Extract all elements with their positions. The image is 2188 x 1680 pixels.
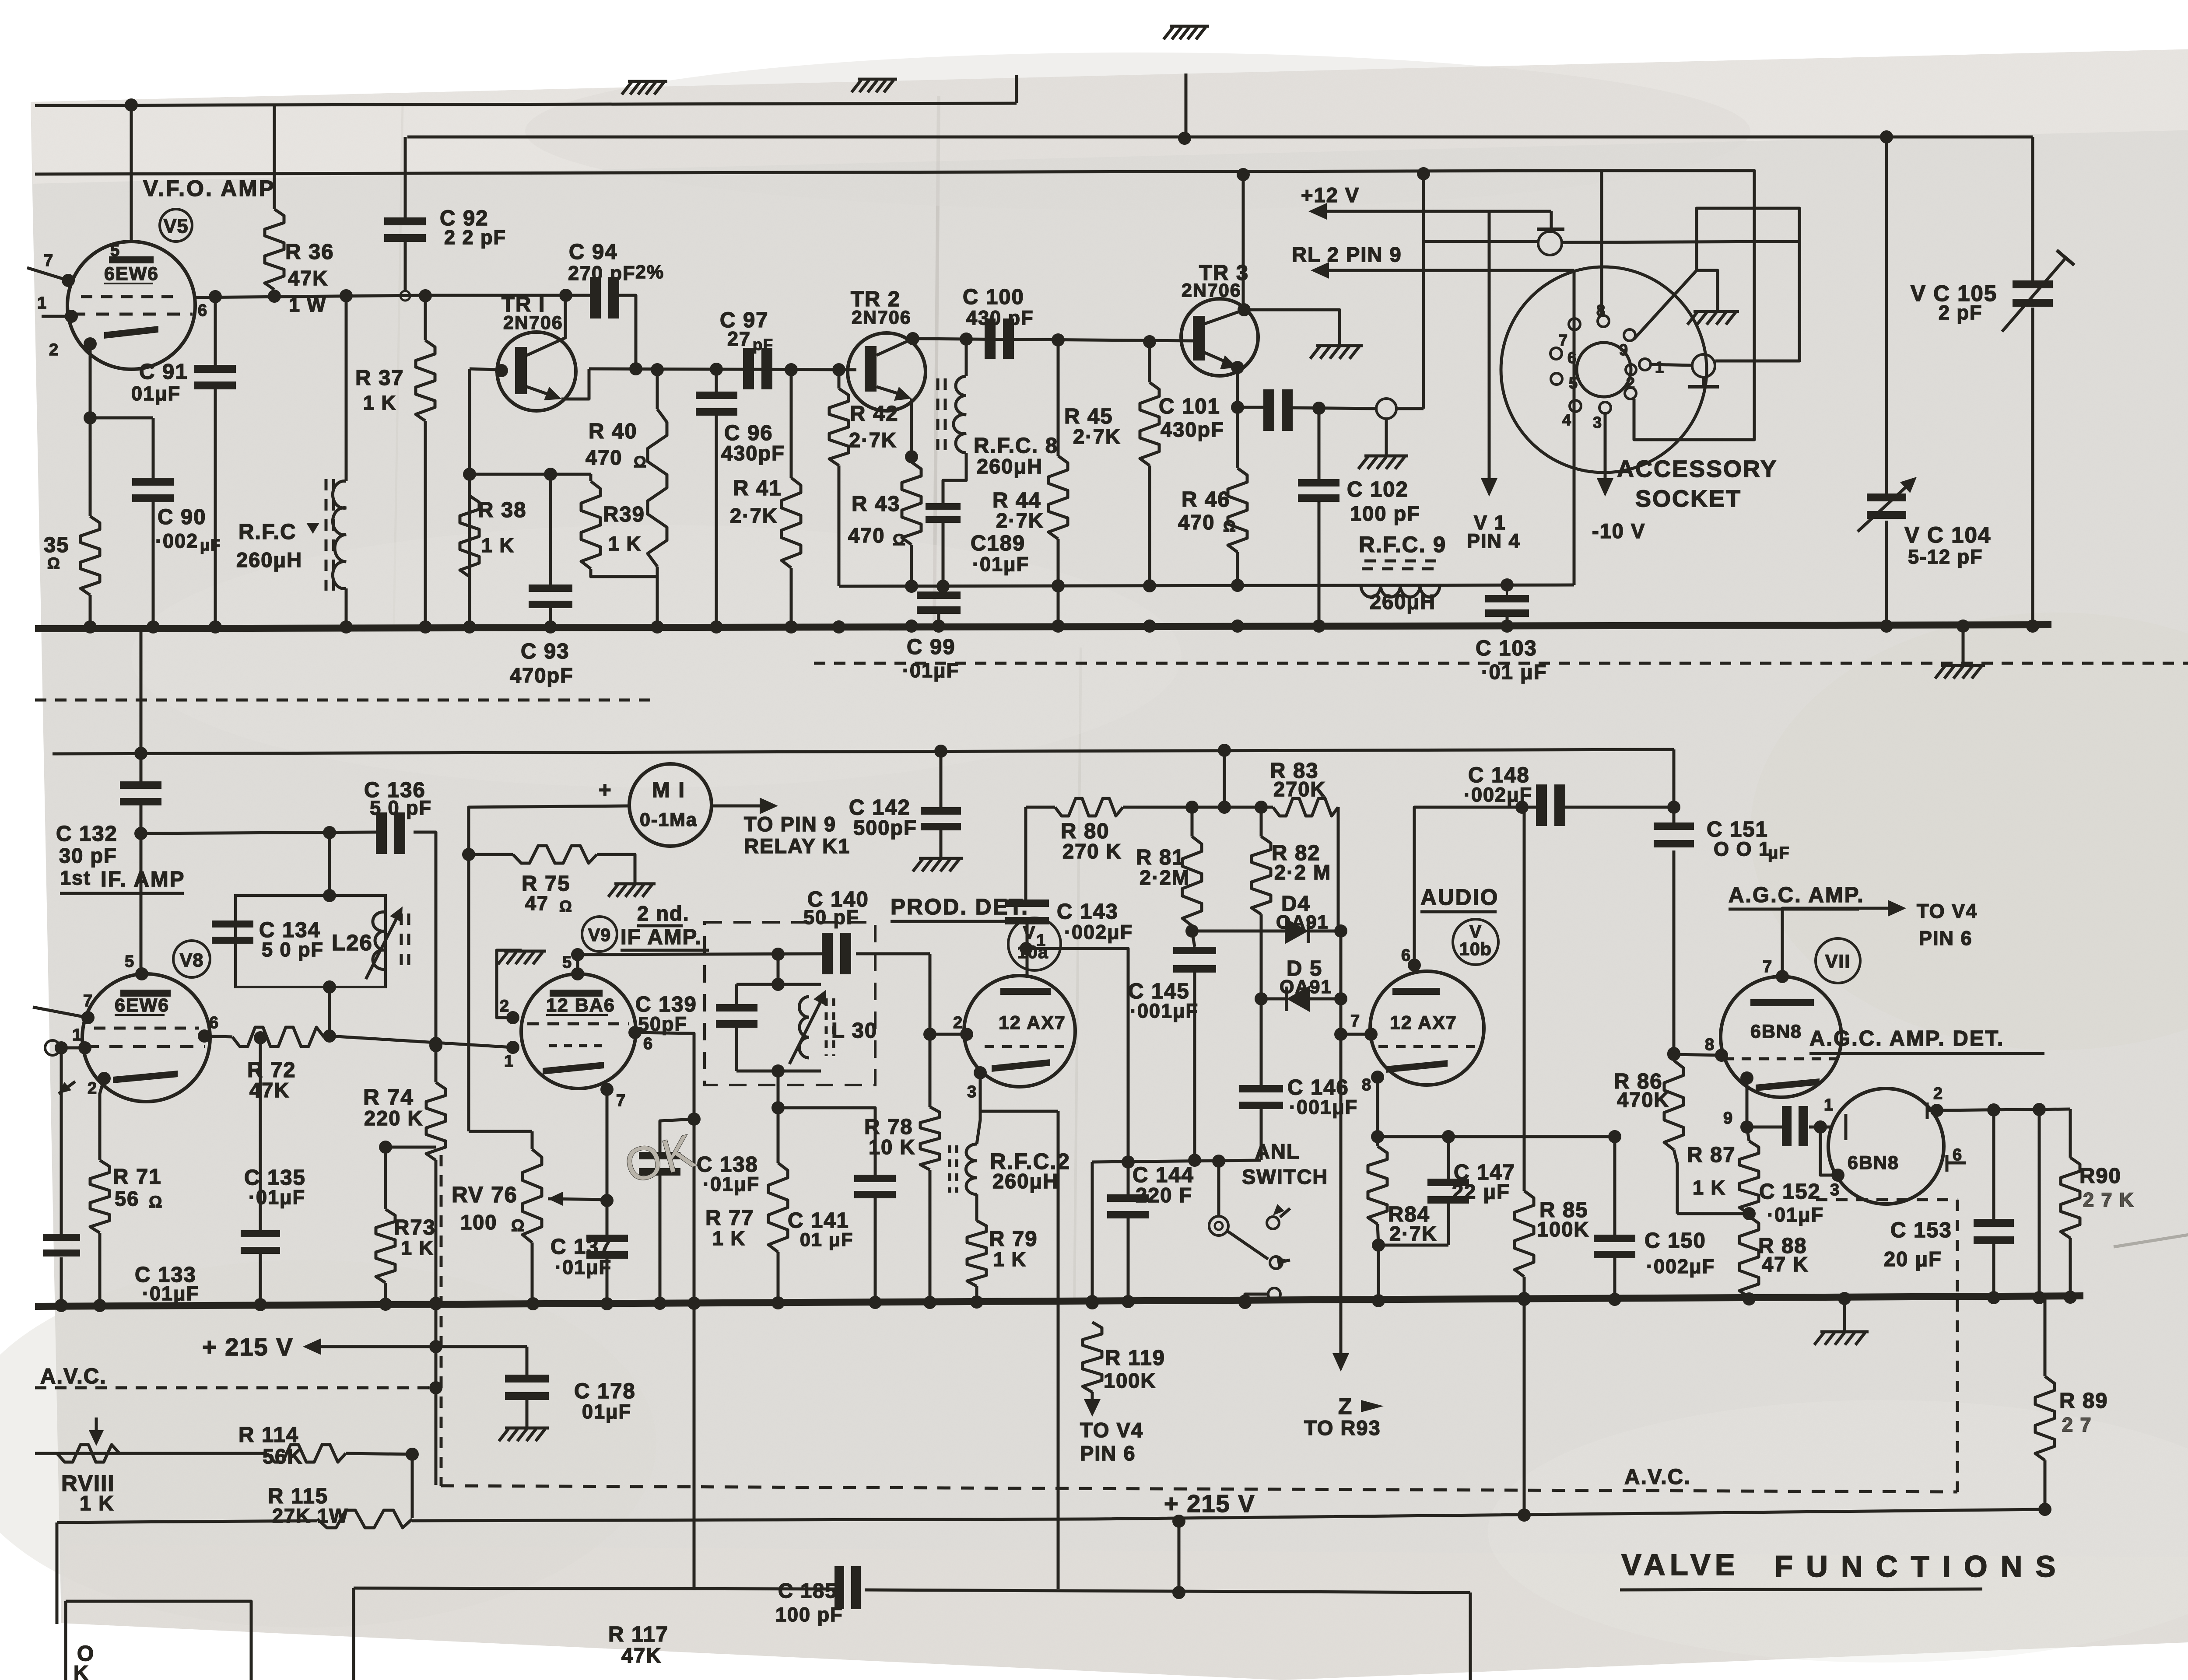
- svg-text:·002μF: ·002μF: [1646, 1255, 1715, 1277]
- svg-text:C 153: C 153: [1890, 1218, 1952, 1242]
- svg-text:5: 5: [1569, 374, 1578, 392]
- svg-text:6BN8: 6BN8: [1848, 1152, 1899, 1173]
- wire D5 line: [1261, 997, 1287, 1001]
- svg-text:1: 1: [1655, 358, 1665, 376]
- node pin6 col split: [687, 1113, 701, 1126]
- ground socket: [1694, 310, 1739, 313]
- wire C135 column: [259, 1038, 262, 1230]
- resistor R41: [782, 478, 801, 568]
- RFC9 core dashes: [1362, 567, 1439, 570]
- svg-text:L26: L26: [332, 930, 373, 955]
- svg-text:OA91: OA91: [1276, 912, 1329, 933]
- svg-text:430 pF: 430 pF: [966, 307, 1034, 329]
- wire rail to box: [1178, 1521, 1181, 1595]
- svg-text:AUDIO: AUDIO: [1420, 885, 1499, 910]
- capacitor C136: [376, 812, 387, 854]
- V9 cathode bar: [543, 1062, 604, 1074]
- wire tank top: [736, 983, 821, 986]
- svg-text:6: 6: [209, 1014, 219, 1032]
- svg-text:C 94: C 94: [569, 240, 618, 264]
- tube designator V10a circle: [1008, 918, 1061, 970]
- capacitor C189: [926, 503, 961, 510]
- svg-text:ACCESSORY: ACCESSORY: [1617, 456, 1778, 482]
- V11b grid stub pin1: [1844, 1114, 1848, 1140]
- resistor R35 (partial): [81, 516, 100, 595]
- node TR2 collector: [906, 332, 919, 345]
- resistor R90: [2061, 1158, 2080, 1238]
- transistor TR3: [1181, 299, 1258, 376]
- wire VC104 column: [1885, 137, 1888, 493]
- node rail x2694: [1172, 1515, 1185, 1528]
- node bus x1637: [710, 620, 723, 633]
- svg-text:10b: 10b: [1459, 939, 1492, 959]
- svg-text:2 7: 2 7: [2062, 1414, 2092, 1436]
- wire V5 pin6 line: [195, 295, 425, 297]
- node C151 bottom: [1667, 1047, 1680, 1060]
- svg-text:01μF: 01μF: [582, 1400, 631, 1423]
- svg-text:Ω: Ω: [511, 1217, 525, 1235]
- svg-text:12 AX7: 12 AX7: [999, 1012, 1066, 1033]
- svg-text:R 38: R 38: [478, 498, 527, 522]
- wire R73 link: [386, 1146, 436, 1149]
- wire C133 column: [60, 1048, 63, 1234]
- VC105 arrow: [2002, 257, 2066, 332]
- capacitor C143: [1005, 899, 1049, 907]
- node bus2 x1778: [771, 1296, 785, 1309]
- svg-text:pF: pF: [753, 336, 774, 353]
- node bus x1502: [651, 620, 664, 633]
- wire R80 to R83: [1123, 806, 1273, 809]
- svg-text:C 137: C 137: [551, 1235, 612, 1259]
- capacitor C101: [1263, 389, 1274, 431]
- tube designator V8: [173, 941, 210, 977]
- wire +12V corner to jack: [1550, 211, 1553, 229]
- wire C138 lower: [659, 1176, 662, 1305]
- svg-text:6EW6: 6EW6: [104, 263, 159, 284]
- wire C153 column: [1992, 1110, 1995, 1219]
- svg-text:6EW6: 6EW6: [115, 995, 169, 1016]
- node bus x972: [419, 620, 432, 633]
- wire connector ground stem: [1385, 419, 1388, 455]
- svg-text:260μH: 260μH: [977, 455, 1043, 478]
- L26 arrow: [366, 911, 400, 979]
- RFC8 core dashes: [944, 378, 947, 455]
- svg-text:2 nd.: 2 nd.: [637, 902, 690, 925]
- svg-text:C 143: C 143: [1057, 900, 1119, 924]
- L26 core dashes: [400, 913, 403, 968]
- svg-text:220 F: 220 F: [1136, 1183, 1192, 1207]
- node bus2 x228: [93, 1299, 106, 1312]
- wire M1 output arrow: [712, 805, 767, 808]
- node box x2694: [1172, 1586, 1185, 1599]
- dashed AVC main: [441, 1486, 1957, 1492]
- node V10a pin1: [1020, 942, 1033, 955]
- resistor RV76: [522, 1149, 542, 1242]
- svg-text:·01μF: ·01μF: [1767, 1204, 1824, 1226]
- svg-text:1 K: 1 K: [481, 534, 515, 556]
- V10b grid dashes: [1378, 1045, 1475, 1048]
- resistor R46: [1228, 468, 1247, 552]
- svg-text:+ 215 V: + 215 V: [202, 1333, 294, 1361]
- capacitor VC104: [1867, 493, 1906, 501]
- svg-text:1 W: 1 W: [289, 294, 326, 316]
- ground bus stem: [1962, 626, 1965, 665]
- connector circle: [1376, 399, 1396, 419]
- svg-text:C 132: C 132: [56, 822, 118, 846]
- node L3 junction x2841: [1237, 168, 1250, 181]
- capacitor C185: [835, 1566, 844, 1609]
- ground bus2 hatch: [1820, 1330, 1869, 1333]
- wire TR1 base line: [470, 369, 497, 370]
- wire C132 to V8 pin5: [140, 805, 143, 974]
- svg-text:R 119: R 119: [1105, 1346, 1165, 1370]
- capacitor C150: [1594, 1235, 1635, 1242]
- svg-text:V.F.O. AMP: V.F.O. AMP: [143, 176, 276, 201]
- resistor R42: [829, 388, 849, 465]
- node x2882: [1255, 801, 1268, 814]
- resistor R85: [1515, 1191, 1534, 1277]
- svg-text:SOCKET: SOCKET: [1635, 486, 1742, 512]
- ground C178: [505, 1427, 549, 1430]
- V10b cathode bar: [1386, 1060, 1448, 1073]
- svg-text:100 pF: 100 pF: [1350, 502, 1420, 525]
- node C144 top: [1122, 1155, 1135, 1169]
- svg-text:Ω: Ω: [559, 897, 573, 915]
- V11 cathode bar: [1756, 1078, 1820, 1091]
- wire tank bottom riser: [777, 1071, 780, 1108]
- svg-text:430pF: 430pF: [1161, 418, 1224, 441]
- resistor R40: [648, 409, 667, 567]
- wire x3253 riser: [1422, 174, 1425, 409]
- svg-text:50 pF: 50 pF: [803, 906, 859, 928]
- node bus2 x1508: [653, 1297, 666, 1310]
- wire V8 pin1 stub: [61, 1046, 85, 1050]
- capacitor VC105: [2013, 280, 2053, 288]
- svg-text:R 46: R 46: [1182, 488, 1231, 511]
- resistor R86: [1664, 1060, 1683, 1150]
- node bus2 x4660: [2033, 1291, 2046, 1304]
- node bus2 x2232: [970, 1295, 983, 1309]
- node bus2 x1387: [600, 1297, 614, 1310]
- node bus2 x1586: [687, 1297, 701, 1310]
- capacitor C134: [212, 920, 253, 927]
- svg-text:L 30: L 30: [831, 1019, 877, 1043]
- svg-text:C 103: C 103: [1476, 637, 1537, 660]
- node RFC8 top: [960, 332, 973, 346]
- diode D5: [1287, 986, 1310, 1012]
- wire C132 column upper: [140, 626, 143, 781]
- node bus x2145: [932, 619, 945, 633]
- node bus2 x3483: [1518, 1293, 1531, 1306]
- svg-text:R90: R90: [2079, 1164, 2121, 1188]
- switch contact 1: [1267, 1217, 1279, 1229]
- svg-text:1: 1: [1824, 1096, 1834, 1114]
- wire C91 column: [214, 296, 217, 365]
- ground stub top edge 3: [1170, 25, 1209, 28]
- svg-text:7: 7: [44, 252, 54, 270]
- node bus2 x2496: [1086, 1295, 1099, 1308]
- svg-text:·001μF: ·001μF: [1289, 1096, 1358, 1118]
- node bus x3444: [1501, 619, 1514, 633]
- node out844 x1453: [629, 362, 642, 375]
- svg-text:A.V.C.: A.V.C.: [40, 1365, 107, 1388]
- resistor R72 horizontal: [232, 1027, 324, 1046]
- V11b grid stub pin2: [1926, 1102, 1929, 1119]
- wire V5 pin7 stub: [27, 268, 68, 280]
- node bus2 x4731: [2064, 1291, 2077, 1304]
- wire y2655 link: [1092, 1160, 1261, 1162]
- svg-text:R.F.C. 8: R.F.C. 8: [974, 434, 1058, 458]
- svg-text:6BN8: 6BN8: [1750, 1021, 1802, 1042]
- wire +215V rail: [412, 1509, 2045, 1521]
- wire C146 column: [1260, 999, 1263, 1085]
- svg-text:6: 6: [1401, 946, 1411, 965]
- wire tank bottom: [736, 1070, 821, 1073]
- svg-text:6: 6: [643, 1035, 653, 1053]
- tube designator V10a: [1019, 941, 1020, 942]
- V9 anode bar: [550, 990, 603, 997]
- svg-text:VII: VII: [1825, 951, 1851, 972]
- node bus2 x140: [55, 1299, 68, 1312]
- node bus x1258: [544, 620, 557, 633]
- node bus2 x2125: [923, 1296, 936, 1309]
- svg-text:R39: R39: [603, 503, 645, 526]
- svg-text:01 μF: 01 μF: [800, 1229, 853, 1250]
- wire RFC2 box top: [980, 1110, 1058, 1113]
- capacitor C141: [854, 1175, 896, 1182]
- wire x4660 column: [2038, 1109, 2041, 1297]
- svg-text:47: 47: [525, 892, 549, 914]
- connector circle pin1: [45, 1040, 60, 1055]
- node L26 top: [323, 889, 336, 902]
- capacitor C135: [241, 1230, 280, 1237]
- node bus x791: [340, 620, 353, 633]
- svg-text:220 K: 220 K: [364, 1106, 423, 1130]
- TR3 emitter lead: [1205, 353, 1232, 364]
- svg-text:5: 5: [125, 952, 135, 971]
- RVIII wiper arrow: [95, 1417, 98, 1440]
- wire pin7 arrow: [1782, 908, 1895, 976]
- svg-text:1 K: 1 K: [80, 1491, 114, 1515]
- svg-text:+: +: [599, 778, 612, 802]
- node L1a junction: [125, 98, 138, 112]
- svg-text:R 37: R 37: [355, 366, 404, 390]
- V5 grid dashes: [81, 295, 182, 298]
- resistor R115 horizontal: [317, 1510, 412, 1528]
- wire pin9 column: [1746, 1078, 1749, 1127]
- node x2798b: [1218, 801, 1231, 814]
- node pin8/R84: [1371, 1130, 1384, 1143]
- jack2 stem: [1702, 377, 1705, 387]
- svg-text:47K: 47K: [249, 1078, 290, 1102]
- svg-text:470K: 470K: [1617, 1088, 1669, 1111]
- node V11 pin7: [1776, 970, 1789, 983]
- tube V5 6EW6: [67, 241, 195, 369]
- svg-text:3: 3: [1593, 413, 1602, 431]
- capacitor C140: [822, 933, 833, 974]
- capacitor C92: [384, 217, 426, 225]
- svg-text:VALVE: VALVE: [1621, 1548, 1739, 1582]
- wire TR3 collector to ground: [1244, 310, 1339, 345]
- svg-text:100K: 100K: [1104, 1369, 1156, 1392]
- svg-text:TO PIN 9: TO PIN 9: [744, 812, 836, 836]
- svg-text:C 93: C 93: [521, 640, 570, 663]
- svg-text:·01μF: ·01μF: [249, 1186, 305, 1208]
- node pin6 junction: [209, 290, 222, 303]
- svg-text:A.V.C.: A.V.C.: [1624, 1465, 1691, 1489]
- node AVC x996: [429, 1381, 442, 1394]
- capacitor C100: [985, 318, 996, 359]
- node V10a pin3: [974, 1066, 987, 1079]
- node out844 x1808: [785, 363, 798, 376]
- wire pin6 line to C94: [425, 294, 590, 297]
- jack1 tee bar: [1537, 227, 1564, 231]
- capacitor C148: [1536, 784, 1547, 826]
- svg-text:·01μF: ·01μF: [972, 553, 1029, 575]
- node V11 pin9: [1740, 1071, 1753, 1085]
- wire C90 column upper: [152, 418, 155, 478]
- wire C150 column: [1613, 1137, 1616, 1235]
- capacitor C153: [1974, 1219, 2014, 1227]
- svg-text:2·7K: 2·7K: [996, 509, 1044, 532]
- wire V8 pin7 stub: [33, 1007, 88, 1018]
- svg-text:C 100: C 100: [963, 285, 1024, 309]
- svg-text:Ω: Ω: [1223, 517, 1237, 535]
- node R37 top: [419, 289, 432, 302]
- node C94 left junction: [559, 289, 572, 302]
- wire C143 riser: [1024, 807, 1027, 899]
- wire C101 to connector: [1292, 408, 1377, 409]
- node V9 pin7: [600, 1083, 614, 1096]
- svg-text:R 43: R 43: [852, 492, 901, 516]
- capacitor C103: [1485, 595, 1529, 602]
- resistor R38: [460, 496, 479, 577]
- svg-text:Ω: Ω: [893, 531, 906, 549]
- svg-text:22 μF: 22 μF: [1452, 1180, 1510, 1203]
- svg-text:μF: μF: [1768, 844, 1790, 862]
- node R45 top: [1143, 335, 1156, 348]
- wire pin3 to RFC2: [977, 1073, 980, 1144]
- svg-text:C189: C189: [971, 532, 1025, 555]
- svg-text:1: 1: [504, 1052, 514, 1071]
- wire C90 column lower: [152, 501, 155, 627]
- dashed AVC right top: [1816, 1198, 1957, 1201]
- node +215 x996: [429, 1340, 442, 1353]
- ground bus hatch: [1941, 664, 1985, 667]
- node base/R38 junction: [463, 468, 476, 481]
- node V10b pin6: [1408, 959, 1421, 972]
- wire lower ground bus: [35, 1296, 2083, 1306]
- inductor RFC 260uH: [345, 296, 348, 481]
- svg-text:260μH: 260μH: [992, 1169, 1059, 1193]
- wire vertical at x2710 from paper edge: [1185, 73, 1188, 139]
- wire R115 left: [57, 1521, 317, 1522]
- svg-text:·002μF: ·002μF: [1064, 921, 1133, 943]
- wire L3 corner down to socket pin8: [1600, 171, 1603, 316]
- wire C140 corner to pin2: [930, 954, 967, 1034]
- inductor RFC2: [966, 1144, 977, 1194]
- wire rail corner down: [1673, 749, 1676, 806]
- wire V9 pin5 riser: [576, 955, 579, 974]
- svg-text:2: 2: [1933, 1085, 1943, 1103]
- tube designator V5 circle: [160, 209, 192, 241]
- svg-text:6: 6: [198, 301, 208, 320]
- svg-text:R73: R73: [394, 1216, 436, 1239]
- svg-text:C 178: C 178: [574, 1379, 636, 1403]
- ground stub top edge 1: [628, 80, 667, 83]
- wire RL2 line: [1318, 269, 1574, 272]
- V8 grid dashes: [94, 1027, 199, 1030]
- wire pin2 to C90: [90, 416, 153, 420]
- svg-text:27K 1W: 27K 1W: [272, 1505, 349, 1527]
- dashed box 2nd IF: [705, 922, 875, 1085]
- wire C101 line: [1238, 406, 1264, 409]
- svg-text:R 42: R 42: [850, 402, 899, 426]
- node bus2 x2845: [1238, 1295, 1252, 1308]
- transistor TR2: [848, 333, 926, 411]
- svg-text:R.F.C: R.F.C: [238, 520, 297, 544]
- svg-text:R 87: R 87: [1687, 1143, 1736, 1167]
- node D5 left: [1255, 992, 1268, 1005]
- node R85 bus: [1518, 1292, 1531, 1305]
- resistor R43: [902, 462, 921, 545]
- svg-text:TO V4: TO V4: [1917, 900, 1978, 922]
- svg-text:8: 8: [1362, 1076, 1372, 1094]
- wire bottom left drop: [352, 1588, 355, 1680]
- svg-text:2·7K: 2·7K: [1073, 425, 1121, 448]
- resistor R119: [1083, 1322, 1102, 1392]
- wire box right drop: [1469, 1592, 1472, 1680]
- node D4 right: [1334, 924, 1347, 938]
- svg-text:5 0 pF: 5 0 pF: [262, 938, 324, 961]
- svg-text:IF. AMP: IF. AMP: [101, 868, 185, 891]
- wire pin1 stub bracket: [1820, 1127, 1838, 1175]
- wire C94 right to TR1 collector node: [618, 295, 636, 368]
- inductor L26 coil: [373, 912, 386, 969]
- svg-text:4: 4: [1562, 411, 1572, 429]
- resistor R87: [1739, 1141, 1759, 1214]
- node V9 pin5: [571, 967, 584, 980]
- node R72 right: [323, 1029, 336, 1043]
- node L3 junction x3253: [1417, 167, 1430, 180]
- capacitor C144: [1107, 1194, 1149, 1202]
- svg-text:SWITCH: SWITCH: [1242, 1165, 1328, 1188]
- node bus2 x996: [429, 1297, 442, 1310]
- svg-text:Ω: Ω: [47, 554, 61, 572]
- wire TR1 output line y844: [589, 369, 856, 370]
- svg-text:47K: 47K: [288, 266, 328, 290]
- svg-text:V C 104: V C 104: [1904, 522, 1991, 547]
- wire V1PIN4 drop: [1488, 211, 1491, 489]
- wire connector to x3253: [1396, 407, 1424, 410]
- wire pin6 to C138 column: [635, 1032, 694, 1589]
- wire R114 to corner: [346, 1453, 412, 1454]
- wire R78 column: [929, 1034, 932, 1107]
- svg-text:1st: 1st: [60, 867, 91, 889]
- svg-text:430pF: 430pF: [721, 441, 785, 465]
- wire pin1 output line: [1026, 948, 1128, 1160]
- V10b anode bar: [1392, 988, 1440, 995]
- node pin2 x4556: [1987, 1103, 2000, 1116]
- node thin rail x2155: [936, 580, 950, 593]
- node V9 pin6: [628, 1026, 642, 1039]
- svg-text:9: 9: [1619, 341, 1629, 359]
- node bus2 x595: [254, 1298, 267, 1311]
- node bus x492: [209, 620, 222, 633]
- wire Z column: [1339, 931, 1343, 1364]
- wire pin9 diagonal: [1634, 208, 1799, 361]
- wire C178 column: [526, 1347, 529, 1375]
